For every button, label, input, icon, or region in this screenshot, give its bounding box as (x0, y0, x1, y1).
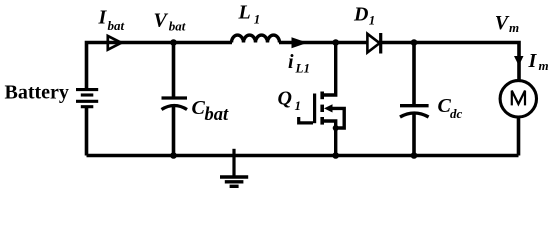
current arrow I_m (filled, down) (514, 56, 524, 66)
motor M1 (500, 81, 536, 117)
wire top rail right segment (279, 43, 519, 82)
diode D1 cathode bar (379, 33, 382, 54)
transistor Q1 body arrow (324, 104, 333, 112)
transistor Q1 body lead (330, 108, 344, 128)
transistor Q1 source lead (322, 121, 336, 156)
ground (220, 149, 248, 187)
current arrow i_L1 (filled) (292, 38, 306, 48)
svg-text:I: I (98, 7, 108, 29)
wire Cbat top lead (172, 43, 176, 99)
node junction dot drain (332, 39, 339, 46)
node V_bat junction dot (170, 39, 177, 46)
capacitor Cdc (400, 106, 429, 117)
node Cdc junction dot bottom (411, 152, 418, 159)
svg-text:i: i (288, 51, 294, 73)
svg-text:m: m (509, 20, 519, 35)
svg-text:1: 1 (369, 13, 376, 28)
svg-text:1: 1 (295, 98, 302, 113)
svg-text:Battery: Battery (5, 82, 69, 104)
capacitor Cbat (162, 98, 188, 110)
diode D1 (367, 34, 379, 53)
node Cdc junction dot top (411, 39, 418, 46)
transistor Q1 drain lead (322, 43, 336, 96)
svg-text:C: C (192, 97, 206, 119)
svg-text:1: 1 (254, 12, 260, 27)
node source-rail junction dot (332, 152, 339, 159)
inductor L1 (232, 35, 280, 42)
transistor Q1 gate lead (299, 117, 313, 123)
svg-text:I: I (528, 50, 538, 72)
svg-text:bat: bat (108, 18, 125, 33)
wire Cdc top lead (412, 43, 416, 106)
svg-text:D: D (353, 4, 368, 26)
svg-text:V: V (154, 10, 169, 32)
wire Cbat bottom lead (172, 106, 176, 156)
svg-text:L1: L1 (295, 60, 310, 75)
label M (512, 91, 525, 106)
wire battery bottom lead (85, 107, 89, 156)
svg-text:bat: bat (169, 19, 186, 34)
svg-text:Q: Q (278, 88, 292, 110)
battery B1 (76, 90, 98, 107)
svg-text:dc: dc (450, 106, 463, 121)
svg-text:m: m (539, 58, 549, 73)
current arrow I_bat (open) (108, 36, 122, 50)
transistor Q1 channel segments (320, 92, 324, 125)
transistor Q1 gate bar (313, 94, 316, 124)
wire bottom rail (87, 154, 519, 158)
svg-text:V: V (495, 12, 510, 34)
svg-text:L: L (238, 2, 251, 24)
svg-text:bat: bat (205, 105, 230, 125)
wire top rail left segment (87, 43, 233, 91)
wire Cdc bottom lead (412, 114, 416, 156)
node Cbat junction dot bottom (170, 152, 177, 159)
wire motor bottom lead (517, 117, 521, 156)
node body-source tie dot (333, 125, 339, 131)
